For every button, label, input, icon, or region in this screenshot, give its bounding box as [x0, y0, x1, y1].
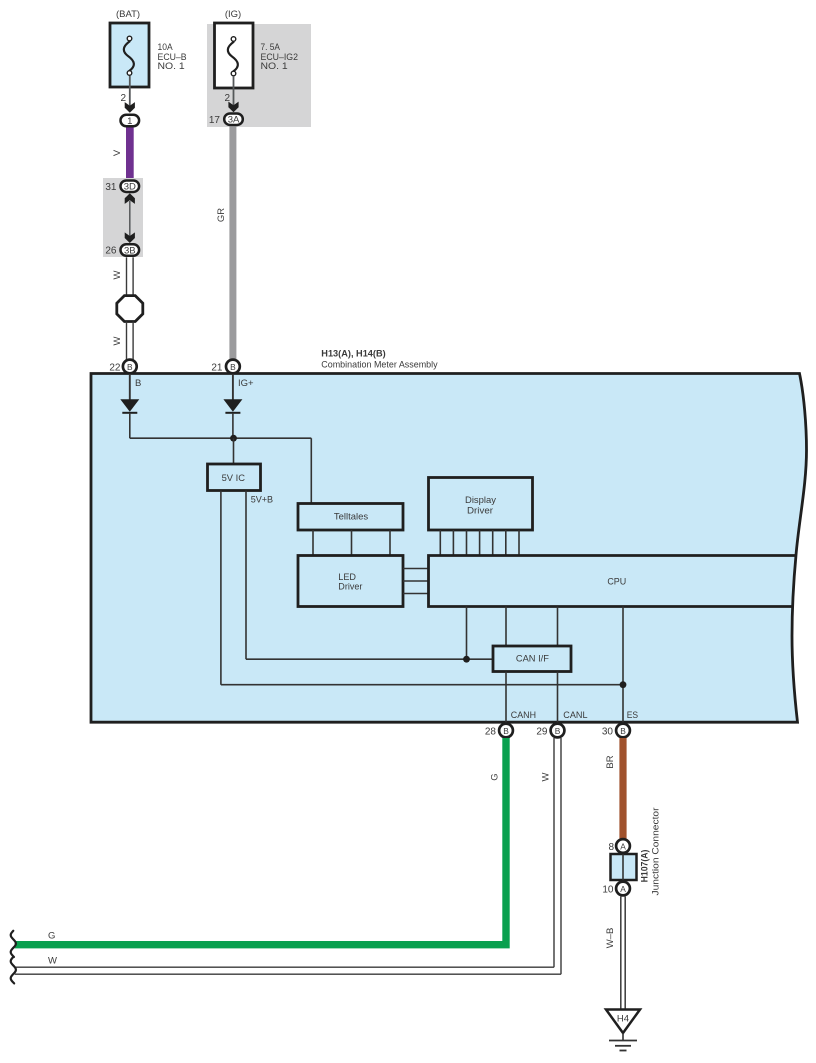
connector 3B pin 26	[105, 244, 139, 256]
wire W (white) 3B to noise filter	[112, 257, 133, 296]
wire CPU to CAN I/F (CANH)	[505, 607, 507, 647]
svg-text:A: A	[620, 884, 626, 894]
svg-text:CAN I/F: CAN I/F	[516, 654, 549, 665]
junction dot ES	[620, 681, 627, 688]
wire 5V IC left output to ES junction	[221, 491, 623, 685]
svg-text:3A: 3A	[228, 115, 240, 126]
wire CPU to CAN I/F (CANL)	[557, 607, 559, 647]
svg-text:B: B	[230, 362, 236, 372]
connector 3D pin 31	[105, 180, 139, 193]
ground H4	[606, 1010, 640, 1051]
svg-text:W: W	[112, 336, 123, 345]
block 5V IC	[208, 464, 261, 491]
svg-text:8: 8	[608, 842, 614, 853]
diode D1	[120, 399, 139, 413]
terminal 22 B	[109, 360, 136, 374]
connector shield 3D/3B (gray block)	[103, 178, 143, 257]
svg-text:17: 17	[209, 115, 221, 126]
wire W-B (white-black)	[605, 897, 625, 1010]
svg-text:2: 2	[224, 93, 230, 104]
net label ES	[627, 710, 638, 721]
svg-text:W: W	[112, 270, 123, 279]
svg-text:Combination Meter Assembly: Combination Meter Assembly	[321, 360, 438, 371]
wire CAN I/F to terminal 28	[505, 672, 507, 731]
wires Telltales to LED Driver	[313, 530, 390, 556]
svg-text:Driver: Driver	[338, 582, 362, 593]
block CPU	[429, 556, 797, 607]
block LED Driver	[298, 556, 403, 607]
wire fuse F1 to connector 1	[129, 76, 131, 107]
wire fuse F2 to connector 3A	[233, 76, 235, 107]
svg-text:B: B	[135, 378, 141, 389]
junction connector H107(A)	[611, 808, 662, 896]
svg-text:CANL: CANL	[563, 710, 587, 721]
arrow into connector 1	[125, 102, 135, 113]
svg-text:CANH: CANH	[511, 710, 536, 721]
wire bus to Telltales	[310, 438, 312, 503]
node IG+ label	[238, 378, 254, 389]
junction dot at IG+/5V IC	[230, 435, 237, 442]
svg-text:H107(A): H107(A)	[640, 850, 651, 883]
svg-text:B: B	[555, 726, 561, 736]
wire G (green) CANH	[15, 738, 506, 945]
continuation squiggle (W wire)	[11, 957, 16, 983]
wires Display Driver to CPU (7 lines)	[440, 530, 519, 556]
net label CANH	[511, 710, 536, 721]
svg-text:Junction Connector: Junction Connector	[651, 808, 662, 896]
svg-text:GR: GR	[216, 208, 227, 222]
diode D2	[223, 399, 242, 413]
svg-text:CPU: CPU	[607, 577, 626, 588]
svg-text:3B: 3B	[124, 245, 136, 256]
svg-text:28: 28	[485, 727, 497, 738]
svg-text:G: G	[48, 931, 55, 942]
svg-text:B: B	[127, 362, 133, 372]
svg-text:H4: H4	[617, 1014, 629, 1025]
terminal 30 B	[602, 724, 630, 738]
svg-text:26: 26	[105, 246, 117, 257]
terminal 28 B	[485, 724, 513, 738]
svg-text:30: 30	[602, 727, 614, 738]
pin 2 label (BAT fuse)	[120, 93, 126, 104]
block Display Driver	[429, 478, 533, 531]
wire W (white) CANL	[15, 738, 561, 974]
wire junction to 5V IC	[233, 438, 235, 464]
wire V (violet)	[112, 128, 134, 180]
svg-text:29: 29	[536, 727, 548, 738]
svg-text:B: B	[503, 726, 509, 736]
fuse F1 ECU-B (BAT) 10A	[110, 9, 187, 87]
svg-text:31: 31	[105, 182, 117, 193]
svg-text:B: B	[620, 726, 626, 736]
bus LED Driver to CPU (3 lines)	[403, 569, 429, 594]
svg-text:3D: 3D	[124, 182, 136, 193]
svg-text:IG+: IG+	[238, 378, 254, 389]
terminal 10 A	[602, 882, 630, 896]
wire 5V IC right output to CAN I/F	[246, 491, 493, 660]
svg-text:5V IC: 5V IC	[222, 473, 246, 484]
connector 3A pin 17	[209, 113, 243, 126]
terminal 21 B	[211, 360, 239, 374]
svg-text:A: A	[620, 841, 626, 851]
wire diode D1 down	[129, 413, 131, 438]
svg-text:21: 21	[211, 363, 223, 374]
svg-text:10: 10	[602, 884, 614, 895]
wire CAN I/F to terminal 29	[557, 672, 559, 731]
connector 1	[121, 115, 140, 127]
svg-text:H13(A), H14(B): H13(A), H14(B)	[321, 348, 385, 359]
svg-text:(IG): (IG)	[225, 9, 241, 20]
svg-text:ES: ES	[627, 710, 638, 721]
wire CPU to terminal 30 (ES)	[622, 607, 624, 731]
wire GR (gray)	[216, 127, 236, 360]
arrow into connector 3A	[228, 102, 238, 113]
block Telltales	[298, 504, 403, 531]
svg-text:Driver: Driver	[467, 505, 493, 516]
svg-text:W: W	[48, 956, 57, 967]
wire terminal 21 to diode D2	[232, 374, 234, 400]
wire horizontal diodes bus	[130, 437, 311, 439]
svg-text:BR: BR	[605, 755, 616, 768]
double arrow 3D-3B	[125, 193, 135, 243]
terminal 29 B	[536, 724, 564, 738]
pin 2 label (IG fuse)	[224, 93, 230, 104]
noise filter (octagon)	[117, 296, 143, 322]
svg-text:(BAT): (BAT)	[116, 9, 140, 20]
net label CANL	[563, 710, 587, 721]
svg-text:NO. 1: NO. 1	[261, 61, 288, 72]
svg-text:W: W	[541, 772, 552, 781]
wire BR (brown) ES	[605, 738, 627, 839]
svg-text:22: 22	[109, 363, 121, 374]
svg-text:NO. 1: NO. 1	[158, 61, 185, 72]
wire diode D2 down	[232, 413, 234, 438]
net label 5V+B	[251, 495, 273, 506]
svg-text:2: 2	[120, 93, 126, 104]
terminal 8 A	[608, 839, 629, 853]
wire W (white) noise filter to terminal 22	[112, 322, 133, 361]
svg-text:1: 1	[127, 116, 132, 127]
svg-text:5V+B: 5V+B	[251, 495, 273, 506]
svg-text:G: G	[490, 773, 501, 780]
fuse F2 ECU-IG2 (IG) 7.5A	[207, 9, 311, 127]
svg-text:Telltales: Telltales	[334, 511, 369, 522]
wire terminal 22 to diode D1	[129, 374, 131, 400]
continuation squiggle (G wire)	[11, 931, 16, 957]
svg-text:V: V	[112, 149, 123, 156]
junction dot CAN	[463, 656, 470, 663]
node B label	[135, 378, 141, 389]
block CAN I/F	[493, 646, 571, 672]
svg-text:W–B: W–B	[605, 928, 616, 949]
combination meter assembly H13(A) H14(B)	[91, 348, 807, 722]
wire CPU to CAN junction	[466, 607, 468, 660]
